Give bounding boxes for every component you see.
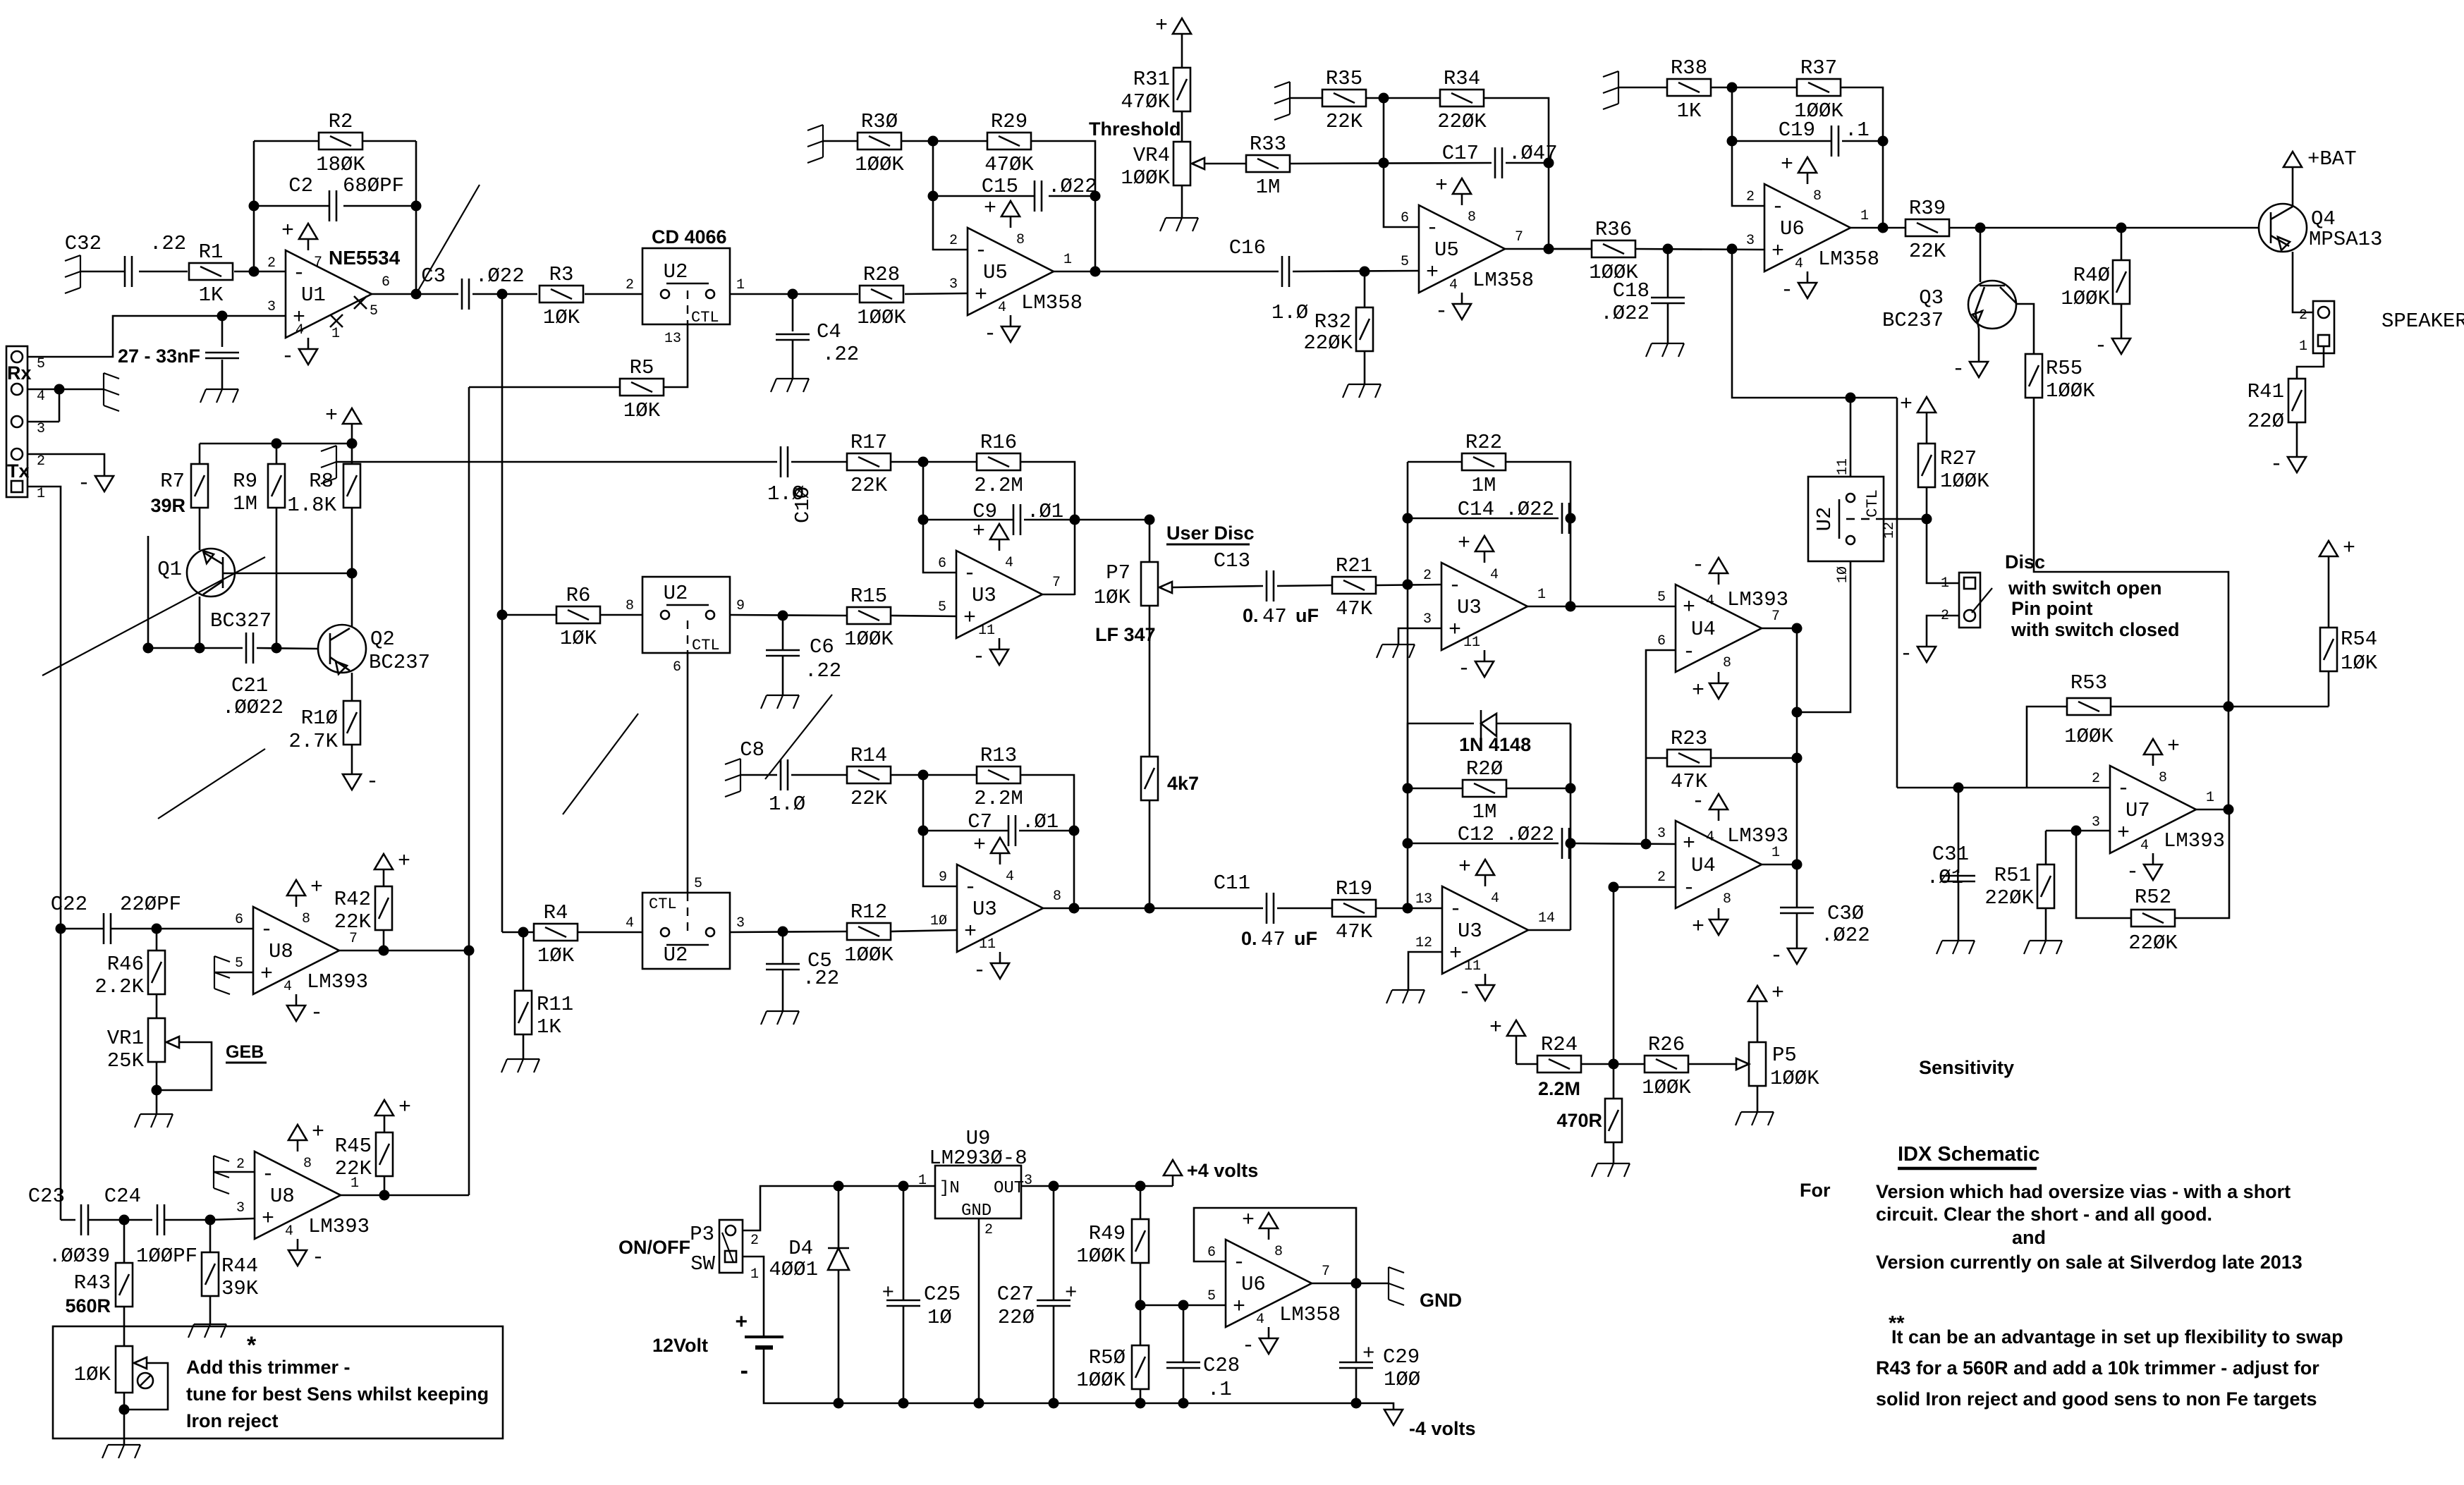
transistor Q4 MPSA13 <box>2259 204 2307 252</box>
svg-text:C27: C27 <box>997 1283 1034 1306</box>
node <box>1403 580 1413 590</box>
ground <box>103 373 104 405</box>
svg-text:C12: C12 <box>1458 823 1494 846</box>
capacitor 27-33nF <box>221 316 224 347</box>
wire pin1 Tx bus <box>28 487 61 1220</box>
node <box>1379 93 1389 104</box>
svg-text:R43: R43 <box>74 1271 111 1295</box>
svg-text:.1: .1 <box>1207 1378 1232 1401</box>
sensitivity bus x2288 <box>1613 887 1615 1064</box>
svg-text:-: - <box>1426 216 1439 240</box>
svg-text:14: 14 <box>1538 910 1555 927</box>
bus vertical node A down <box>501 294 504 932</box>
svg-text:C3: C3 <box>421 264 446 288</box>
wire P7 down to 4k7 <box>1149 606 1151 757</box>
svg-text:R2Ø: R2Ø <box>1466 757 1503 781</box>
wire R7 to Q1 <box>199 508 201 549</box>
resistor R22 1M <box>1408 461 1461 463</box>
svg-text:1ØØK: 1ØØK <box>844 943 893 967</box>
svg-text:6: 6 <box>1207 1245 1216 1261</box>
wire R22 right down <box>1506 462 1571 607</box>
svg-text:R23: R23 <box>1671 727 1707 750</box>
svg-text:-: - <box>1448 574 1461 598</box>
svg-text:SW: SW <box>690 1252 715 1276</box>
svg-text:2: 2 <box>984 1222 993 1238</box>
svg-text:+: + <box>1683 596 1695 620</box>
svg-text:R34: R34 <box>1444 67 1480 90</box>
wire R49 to node <box>1140 1263 1142 1305</box>
node <box>1922 514 1932 525</box>
svg-text:U2: U2 <box>1813 507 1836 532</box>
node <box>119 1215 130 1226</box>
wire node to U6b pin5 <box>1140 1304 1226 1307</box>
diode D4 4001 <box>834 1181 844 1192</box>
resistor R12 100K <box>847 923 891 940</box>
svg-text:+: + <box>1426 261 1439 285</box>
svg-text:4: 4 <box>998 300 1006 316</box>
wire U4a out <box>1762 864 1797 866</box>
svg-text:4: 4 <box>626 915 634 931</box>
svg-text:3: 3 <box>736 915 745 931</box>
svg-text:4: 4 <box>1706 829 1714 845</box>
svg-text:3: 3 <box>1746 233 1755 249</box>
svg-text:1M: 1M <box>1472 800 1497 824</box>
svg-text:R24: R24 <box>1541 1033 1578 1056</box>
wire <box>1711 87 1797 89</box>
svg-text:CTL: CTL <box>649 896 677 913</box>
svg-text:+: + <box>1683 832 1695 856</box>
svg-text:LF 347: LF 347 <box>1095 624 1156 645</box>
svg-text:11: 11 <box>978 623 995 639</box>
wire <box>1366 97 1440 99</box>
capacitor C24 100PF <box>124 1219 152 1221</box>
svg-text:0.: 0. <box>1243 605 1259 626</box>
svg-text:GND: GND <box>961 1202 992 1221</box>
svg-text:U3: U3 <box>1458 919 1482 943</box>
battery 12Volt <box>745 1336 783 1338</box>
svg-text:C31: C31 <box>1932 843 1969 866</box>
wire R38 node down to U6 pin2 <box>1732 87 1765 206</box>
wire P5 ground <box>1757 1086 1759 1112</box>
svg-text:1ØØK: 1ØØK <box>1076 1369 1126 1392</box>
svg-text:and: and <box>2012 1227 2046 1248</box>
power +BAT <box>2283 152 2302 167</box>
svg-text:1ØK: 1ØK <box>537 944 575 967</box>
wire <box>139 271 188 273</box>
svg-text:R33: R33 <box>1250 133 1286 156</box>
wire node down to U3 pin9 <box>923 775 957 886</box>
wire R9 down to C21 row <box>276 508 278 648</box>
analog switch U2 a <box>642 248 730 324</box>
wire R26 to P5 wiper <box>1688 1063 1736 1065</box>
svg-text:1K: 1K <box>537 1015 561 1039</box>
ground <box>767 1010 799 1012</box>
svg-text:22ØPF: 22ØPF <box>120 893 181 916</box>
resistor R8 1.8K <box>351 444 353 464</box>
node C6 <box>778 611 788 621</box>
svg-text:4: 4 <box>285 1223 293 1240</box>
resistor R23 47K <box>1646 757 1667 759</box>
svg-text:-: - <box>1781 279 1793 302</box>
svg-text:.Ø22: .Ø22 <box>1821 924 1870 947</box>
svg-text:+: + <box>1435 174 1448 198</box>
feedback bus x1996 <box>1407 462 1409 908</box>
wire <box>1277 585 1332 586</box>
resistor R32 220K <box>1364 271 1366 307</box>
svg-text:LM358: LM358 <box>1279 1303 1341 1326</box>
op-amp U1 NE5534 <box>286 250 372 338</box>
wire R5 left to U8 bus <box>469 386 620 389</box>
svg-text:VR4: VR4 <box>1133 144 1170 167</box>
resistor R19 47K <box>1332 900 1376 917</box>
wire U5 out <box>1054 271 1279 273</box>
svg-text:-: - <box>973 959 986 983</box>
wire U7 pin2 row <box>1897 787 2110 789</box>
svg-text:7: 7 <box>1515 229 1523 245</box>
svg-text:R36: R36 <box>1595 218 1632 241</box>
wire left vertical to U5 pin2 <box>933 141 968 250</box>
svg-text:Q1: Q1 <box>157 558 182 581</box>
svg-text:+: + <box>1489 1016 1502 1040</box>
svg-text:D4: D4 <box>788 1237 813 1260</box>
wire pin4 ground <box>28 389 104 391</box>
wire R53 to R54 <box>2111 706 2329 708</box>
svg-text:8: 8 <box>626 598 634 614</box>
svg-text:uF: uF <box>1295 605 1319 626</box>
svg-text:22ØK: 22ØK <box>2128 931 2178 955</box>
svg-text:Add this trimmer -: Add this trimmer - <box>186 1357 350 1378</box>
potentiometer VR1 25K <box>148 1018 165 1062</box>
svg-text:.Ø22: .Ø22 <box>1505 823 1554 846</box>
svg-text:R6: R6 <box>566 584 591 607</box>
wire <box>823 140 858 142</box>
wire R55 down to R53 node <box>2034 398 2228 809</box>
power + <box>1507 1020 1525 1036</box>
ground GND <box>1388 1267 1389 1300</box>
svg-text:1M: 1M <box>233 492 257 515</box>
wire U9 GND to rail <box>978 1218 980 1403</box>
svg-text:-: - <box>312 1246 324 1270</box>
connector P3 ON/OFF switch <box>719 1220 743 1273</box>
transistor Q3 BC237 <box>1980 228 1982 282</box>
svg-text:LM358: LM358 <box>1472 269 1534 292</box>
resistor R5 10K <box>620 379 664 396</box>
power - <box>2288 457 2306 472</box>
svg-text:R29: R29 <box>991 110 1027 133</box>
resistor R37 100K <box>1797 79 1841 96</box>
svg-text:U5: U5 <box>1434 238 1459 262</box>
svg-text:R41: R41 <box>2248 380 2284 403</box>
power - <box>1788 948 1806 964</box>
wire node down to U3 pin6 <box>923 462 956 573</box>
svg-text:22Ø: 22Ø <box>2248 410 2284 433</box>
wire pin5 to U1 pin3 <box>28 316 286 357</box>
resistor R6 10K <box>502 614 556 616</box>
svg-text:3: 3 <box>1657 826 1666 842</box>
power +4 volts <box>1164 1160 1182 1175</box>
svg-text:1: 1 <box>331 326 340 342</box>
svg-text:Pin point: Pin point <box>2011 598 2092 619</box>
wire U3c out <box>1528 929 1571 931</box>
wire U3c pin12 ground <box>1408 952 1442 990</box>
svg-text:9: 9 <box>939 869 947 886</box>
svg-text:LM358: LM358 <box>1818 248 1879 271</box>
capacitor C14 .022 <box>1408 518 1559 520</box>
svg-text:+: + <box>1065 1281 1077 1304</box>
svg-text:R27: R27 <box>1940 447 1977 470</box>
svg-text:C3Ø: C3Ø <box>1827 902 1864 925</box>
resistor R13 2.2M <box>977 766 1020 783</box>
svg-text:U2: U2 <box>664 943 688 967</box>
svg-text:4k7: 4k7 <box>1167 773 1199 794</box>
ground <box>1741 1111 1774 1113</box>
svg-text:ON/OFF: ON/OFF <box>618 1237 690 1258</box>
callout line <box>563 714 638 814</box>
svg-text:4: 4 <box>283 979 292 995</box>
svg-text:22K: 22K <box>334 910 372 934</box>
ground <box>1618 71 1619 104</box>
svg-text:+: + <box>2343 537 2355 561</box>
wire out bus to switch U2 pin10 <box>1797 561 1850 712</box>
capacitor C9 .01 <box>923 519 1013 521</box>
svg-text:2: 2 <box>1423 568 1432 584</box>
capacitor C28 .1 <box>1183 1305 1185 1362</box>
svg-text:-: - <box>1770 944 1783 968</box>
svg-text:C16: C16 <box>1229 236 1266 259</box>
svg-text:2.2M: 2.2M <box>974 474 1023 497</box>
svg-text:1ØØK: 1ØØK <box>1770 1067 1819 1090</box>
svg-text:with switch closed: with switch closed <box>2011 619 2180 640</box>
svg-text:P5: P5 <box>1772 1044 1797 1067</box>
svg-text:R42: R42 <box>334 888 371 911</box>
svg-text:R2: R2 <box>329 110 353 133</box>
svg-text:1ØK: 1ØK <box>74 1363 111 1386</box>
wire battery minus to rail <box>764 1347 1356 1403</box>
wire R8 down to Q2 collector <box>351 508 353 625</box>
svg-text:+: + <box>975 283 987 307</box>
wire <box>902 140 987 142</box>
svg-text:47: 47 <box>1261 928 1286 951</box>
svg-text:MPSA13: MPSA13 <box>2309 228 2382 251</box>
svg-text:R12: R12 <box>850 900 887 924</box>
svg-text:U1: U1 <box>301 283 326 307</box>
wire VR1 ground <box>156 1062 158 1114</box>
ground <box>108 1444 140 1446</box>
svg-text:5: 5 <box>1657 589 1666 606</box>
wire R28 to U5 <box>905 293 968 294</box>
resistor R42 22K <box>383 930 385 951</box>
ground <box>1382 644 1415 645</box>
wire R13 right down <box>1020 775 1074 908</box>
svg-text:2: 2 <box>236 1156 245 1173</box>
wire U2d out <box>730 931 847 932</box>
svg-text:2: 2 <box>949 233 958 249</box>
svg-text:Q2: Q2 <box>370 628 395 651</box>
svg-text:+: + <box>1781 153 1793 177</box>
svg-text:22K: 22K <box>850 787 888 810</box>
ground pin2 <box>213 1156 214 1188</box>
wire Q3 emitter to negative <box>1978 329 1980 362</box>
svg-text:+: + <box>1448 618 1461 642</box>
resistor R43 560R <box>123 1220 126 1263</box>
svg-text:22K: 22K <box>1326 110 1363 133</box>
svg-text:4: 4 <box>1449 277 1458 293</box>
svg-text:68ØPF: 68ØPF <box>343 174 404 197</box>
svg-text:R35: R35 <box>1326 67 1362 90</box>
wire R3 to U2 <box>585 293 642 295</box>
wire feedback left vertical <box>253 141 255 271</box>
svg-text:CD 4066: CD 4066 <box>652 226 727 248</box>
wire R15 to U3a pin5 <box>891 616 956 616</box>
wire U8b out <box>341 1194 469 1197</box>
svg-text:U6: U6 <box>1780 217 1805 240</box>
svg-text:R5Ø: R5Ø <box>1089 1346 1126 1369</box>
svg-text:1Ø: 1Ø <box>1835 566 1851 583</box>
svg-text:22ØK: 22ØK <box>1303 331 1353 355</box>
svg-text:C25: C25 <box>924 1283 960 1306</box>
power - <box>2112 338 2130 354</box>
svg-text:U4: U4 <box>1691 618 1716 641</box>
wire <box>257 648 318 649</box>
svg-text:-: - <box>1458 981 1471 1005</box>
svg-text:-: - <box>1900 642 1913 666</box>
svg-text:1ØK: 1ØK <box>1094 586 1131 609</box>
wire R41 to negative <box>2296 422 2298 457</box>
op-amp U4 LM393 a <box>1676 821 1762 908</box>
svg-text:+: + <box>1900 393 1913 417</box>
op-amp U3 LF347 a <box>956 551 1042 638</box>
wire speaker pin1 to R41 <box>2297 346 2324 378</box>
capacitor C10 1.0 <box>780 446 782 477</box>
svg-text:R45: R45 <box>335 1135 372 1158</box>
resistor R52 220K feedback <box>2076 831 2130 918</box>
wire <box>791 774 847 776</box>
wire R37 right down <box>1841 87 1883 228</box>
svg-text:+: + <box>1233 1295 1245 1319</box>
wire wiper loop <box>124 1363 168 1410</box>
wire U5b out <box>1505 248 1592 250</box>
capacitor C29 100 polarized <box>1355 1283 1358 1362</box>
svg-text:1N 4148: 1N 4148 <box>1459 734 1531 755</box>
wire U4a pin2 to sens bus <box>1614 886 1676 888</box>
svg-text:1ØØK: 1ØØK <box>857 306 906 329</box>
wire <box>1618 87 1667 89</box>
resistor R33 1M <box>1246 155 1290 172</box>
wire <box>1516 1063 1537 1065</box>
svg-text:C29: C29 <box>1383 1345 1420 1369</box>
wire node to disc switch <box>1927 519 1959 583</box>
svg-text:8: 8 <box>1053 888 1061 905</box>
wire R29 right <box>1031 141 1095 271</box>
svg-text:0.: 0. <box>1241 928 1257 949</box>
node <box>205 1215 216 1226</box>
svg-text:4: 4 <box>1795 256 1803 272</box>
svg-text:-: - <box>975 239 987 263</box>
svg-text:5: 5 <box>370 303 378 319</box>
svg-text:R39: R39 <box>1909 197 1946 220</box>
svg-text:2.2K: 2.2K <box>94 975 144 998</box>
wire R54 down to R53 row <box>2328 671 2330 707</box>
wire R10 to negative <box>351 745 353 774</box>
svg-text:+: + <box>281 219 294 243</box>
unused pins X marks <box>354 296 367 309</box>
svg-text:OUT: OUT <box>994 1179 1024 1198</box>
svg-text:R1: R1 <box>199 240 224 264</box>
node <box>1727 82 1738 93</box>
svg-text:22K: 22K <box>850 474 888 497</box>
power + <box>1748 986 1767 1001</box>
connector J1 Rx/Tx <box>6 346 28 497</box>
svg-text:5: 5 <box>938 599 946 616</box>
svg-text:6: 6 <box>1657 633 1666 649</box>
svg-text:+4 volts: +4 volts <box>1187 1160 1258 1181</box>
svg-text:22K: 22K <box>335 1157 372 1180</box>
svg-text:-: - <box>310 1001 323 1025</box>
svg-text:1Ø: 1Ø <box>930 913 947 929</box>
wire Q1 base <box>223 573 352 575</box>
wire U4b pin6 to R23 bus <box>1646 650 1676 845</box>
svg-text:1.Ø: 1.Ø <box>1271 301 1308 324</box>
svg-text:Threshold: Threshold <box>1089 118 1181 140</box>
svg-text:+: + <box>1242 1209 1255 1233</box>
svg-text:-: - <box>1242 1334 1255 1358</box>
regulator U9 LM2930-8 <box>935 1166 1021 1218</box>
svg-text:.Ø22: .Ø22 <box>1505 498 1554 521</box>
svg-text:+: + <box>964 920 977 944</box>
svg-text:.22: .22 <box>822 343 859 366</box>
svg-text:1ØØK: 1ØØK <box>1076 1245 1126 1268</box>
svg-text:+: + <box>1449 942 1462 966</box>
svg-text:uF: uF <box>1294 928 1317 949</box>
svg-text:+: + <box>398 1096 411 1120</box>
svg-text:+: + <box>735 1310 748 1333</box>
svg-text:4ØØ1: 4ØØ1 <box>769 1258 818 1281</box>
svg-text:U2: U2 <box>664 582 688 605</box>
resistor R26 100K <box>1645 1056 1688 1072</box>
wire R33 to node <box>1290 163 1492 164</box>
wire <box>791 461 847 463</box>
capacitor C5 .22 <box>782 931 784 964</box>
wire VR4 ground <box>1181 185 1183 218</box>
capacitor C17 .047 <box>1494 147 1496 178</box>
svg-text:CTL: CTL <box>691 309 719 326</box>
svg-text:.Ø22: .Ø22 <box>475 264 525 288</box>
node C4 <box>788 289 798 300</box>
svg-text:2: 2 <box>2299 307 2307 324</box>
svg-text:-: - <box>78 472 90 496</box>
svg-text:U7: U7 <box>2125 799 2150 822</box>
svg-text:8: 8 <box>303 1156 312 1172</box>
svg-text:-: - <box>2117 777 2130 801</box>
svg-text:R8: R8 <box>309 470 334 493</box>
wire <box>891 774 977 776</box>
resistor R2 180K <box>254 140 319 142</box>
resistor R30 100K <box>858 133 901 149</box>
svg-text:4: 4 <box>1005 555 1013 571</box>
ground <box>336 446 337 478</box>
wire <box>1506 162 1549 164</box>
svg-text:5: 5 <box>37 356 45 372</box>
wire C21 row <box>148 647 243 649</box>
wire rail to R49 <box>1135 1181 1146 1192</box>
wire C9 row to P7 <box>1075 520 1149 562</box>
wire R36 to U6 <box>1635 249 1765 250</box>
svg-text:.22: .22 <box>150 232 186 255</box>
svg-text:1K: 1K <box>1677 99 1702 123</box>
capacitor C30 .022 <box>1796 864 1798 908</box>
svg-text:P3: P3 <box>690 1223 714 1246</box>
svg-text:13: 13 <box>1415 891 1432 908</box>
